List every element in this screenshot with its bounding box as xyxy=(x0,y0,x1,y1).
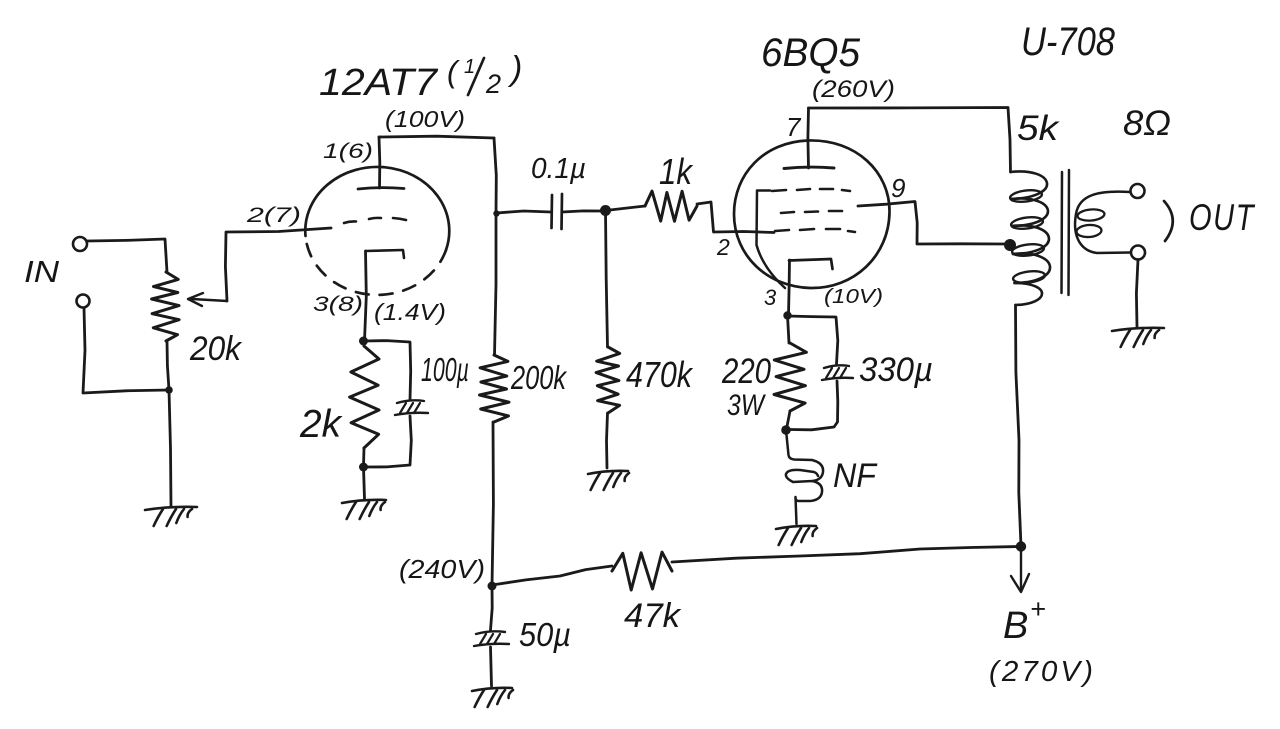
node screen tap xyxy=(1004,239,1016,251)
capacitor C2 100u symbol xyxy=(395,400,428,415)
svg-text:3: 3 xyxy=(764,285,777,310)
potentiometer VR1 wiper arrow xyxy=(188,293,227,306)
tube V1 envelope dashed arc xyxy=(306,236,447,295)
label pin 2 of V2 xyxy=(716,234,730,260)
label tube V1 12AT7(1/2) xyxy=(319,50,522,104)
label (270V) xyxy=(989,656,1096,688)
wire output bottom to ground xyxy=(1136,260,1138,328)
transformer T1 secondary winding xyxy=(1075,192,1130,253)
wire 470k to ground xyxy=(607,413,608,468)
label 47k xyxy=(624,597,682,635)
tube V2 grid g2 dashes xyxy=(781,211,842,213)
transformer T1 primary winding xyxy=(1009,171,1050,305)
label tube V2 6BQ5 xyxy=(761,31,861,75)
label 330u xyxy=(859,351,933,389)
svg-text:OUT: OUT xyxy=(1189,197,1255,238)
tube V2 cathode xyxy=(789,259,833,269)
wire 200k to 240V node xyxy=(492,422,493,586)
wire pot bottom to junction xyxy=(167,341,169,390)
label 20k xyxy=(189,330,243,368)
wire wiper to 12AT7 grid xyxy=(225,228,331,301)
tube V2 cathode lead xyxy=(789,260,790,315)
label 3W xyxy=(727,389,766,422)
label output paren xyxy=(1164,201,1173,241)
inductor NF coil xyxy=(786,430,823,524)
node grid junction xyxy=(600,205,611,216)
svg-text:2k: 2k xyxy=(299,403,343,446)
svg-text:2: 2 xyxy=(716,234,730,260)
svg-text:100µ: 100µ xyxy=(421,351,469,388)
svg-text:(10V): (10V) xyxy=(824,286,883,308)
svg-text:9: 9 xyxy=(891,173,905,203)
svg-text:47k: 47k xyxy=(624,597,682,635)
svg-text:2(7): 2(7) xyxy=(246,204,301,227)
label (260V) xyxy=(812,76,895,103)
label (1.4V) xyxy=(374,299,446,325)
wire 47k to B+ node xyxy=(672,547,1021,563)
svg-text:470k: 470k xyxy=(626,354,694,395)
ground under 470k xyxy=(588,471,629,490)
svg-text:+: + xyxy=(1030,594,1046,624)
svg-text:50µ: 50µ xyxy=(519,616,571,653)
tube V1 grid dashes xyxy=(344,218,406,223)
tube V2 grid g3 dashes xyxy=(775,229,855,232)
label OUT xyxy=(1189,197,1255,238)
label 5k xyxy=(1017,109,1060,148)
tube V1 plate xyxy=(358,188,404,189)
node B+ junction xyxy=(1016,541,1026,551)
wire cap to grid node xyxy=(562,211,605,212)
label 470k xyxy=(626,354,694,395)
label (10V) xyxy=(824,286,883,308)
label pin 3 xyxy=(764,285,777,310)
wire input bottom to ground bus xyxy=(83,308,169,393)
tube V2 screen lead to pin 9 xyxy=(858,202,1006,245)
svg-text:IN: IN xyxy=(24,254,60,289)
tube V1 cathode xyxy=(366,250,405,258)
node cathode bottom junction xyxy=(359,463,368,472)
capacitor C3 330u branch xyxy=(788,316,838,430)
label IN xyxy=(24,254,60,289)
label B+ xyxy=(1003,594,1046,647)
wire 240V to 47k xyxy=(492,566,612,585)
label pin 7 xyxy=(786,112,802,142)
wire to ground under 2k xyxy=(364,467,365,499)
resistor R2 2k xyxy=(350,341,379,466)
ground under 50u xyxy=(472,688,513,707)
svg-text:220: 220 xyxy=(721,352,771,391)
node input-ground junction xyxy=(165,386,173,394)
svg-text:(100V): (100V) xyxy=(385,106,465,132)
svg-text:20k: 20k xyxy=(189,330,243,368)
resistor R7 47k xyxy=(612,552,672,590)
label 8ohm xyxy=(1123,104,1171,143)
node 240V junction xyxy=(488,582,497,591)
label U-708 xyxy=(1021,20,1116,64)
label 2k xyxy=(299,403,343,446)
svg-text:1(6): 1(6) xyxy=(323,140,373,163)
tube V2 plate xyxy=(784,167,834,168)
wire V2 plate to OPT primary xyxy=(809,108,1011,173)
svg-text:6BQ5: 6BQ5 xyxy=(761,31,861,75)
capacitor C3 330u symbol xyxy=(822,365,853,380)
svg-text:200k: 200k xyxy=(510,359,567,396)
resistor R6 220 3W xyxy=(774,316,806,430)
capacitor C1 0.1u xyxy=(552,194,563,229)
node coupling tee xyxy=(493,210,499,216)
ground under NF xyxy=(776,526,817,545)
ground under 2k xyxy=(342,500,386,519)
node cathode bottom V2 xyxy=(781,425,791,435)
wire V1 plate to B+ rail xyxy=(379,136,494,138)
label pin 9 xyxy=(891,173,905,203)
svg-text:330µ: 330µ xyxy=(859,351,933,389)
label NF xyxy=(833,457,878,495)
label (240V) xyxy=(399,554,485,584)
svg-text:7: 7 xyxy=(786,112,802,142)
svg-text:5k: 5k xyxy=(1017,109,1060,148)
tube V2 envelope xyxy=(734,140,890,288)
input terminal J1 bottom xyxy=(77,295,90,308)
resistor R5 470k xyxy=(596,347,620,413)
wire node to 1k xyxy=(606,206,646,211)
node cathode junction xyxy=(359,337,368,346)
svg-text:8Ω: 8Ω xyxy=(1123,104,1171,143)
tube V1 envelope solid arc xyxy=(305,167,449,250)
svg-text:NF: NF xyxy=(833,457,878,495)
capacitor C4 50u symbol xyxy=(474,631,509,646)
svg-text:(260V): (260V) xyxy=(812,76,895,103)
tube V2 grid g1 dashes xyxy=(772,189,850,191)
svg-text:(1.4V): (1.4V) xyxy=(374,299,446,325)
svg-text:0.1µ: 0.1µ xyxy=(531,153,586,185)
ground under pot xyxy=(145,507,197,526)
label 100u xyxy=(421,351,469,388)
tube V1 plate lead xyxy=(378,137,382,188)
wire tee to coupling cap xyxy=(497,211,552,213)
label 0.1u xyxy=(531,153,586,185)
transformer T1 core xyxy=(1062,170,1070,295)
wire junction to ground xyxy=(169,390,171,507)
resistor R3 200k xyxy=(480,355,510,422)
label 220 xyxy=(721,352,771,391)
capacitor C2 100u branch xyxy=(364,341,412,467)
svg-text:3W: 3W xyxy=(727,389,766,422)
node cathode V2 junction xyxy=(783,311,791,319)
resistor R4 1k xyxy=(645,191,697,221)
wire primary bottom to B+ xyxy=(1016,305,1022,546)
svg-text:1k: 1k xyxy=(659,151,694,192)
wire 1k to 6BQ5 grid xyxy=(697,202,774,233)
capacitor C4 50u branch xyxy=(491,586,493,686)
svg-text:(270V): (270V) xyxy=(989,656,1096,688)
label 3(8) cathode pin xyxy=(313,293,363,316)
resistor R5 470k branch xyxy=(606,211,608,348)
label 1k xyxy=(659,151,694,192)
output terminal bottom xyxy=(1131,246,1145,260)
svg-text:2: 2 xyxy=(485,69,501,99)
svg-text:B: B xyxy=(1003,605,1028,647)
svg-text:U-708: U-708 xyxy=(1021,20,1116,64)
input terminal J1 top xyxy=(73,237,87,251)
label (100V) xyxy=(385,106,465,132)
tube V1 cathode lead xyxy=(365,251,367,341)
label 200k xyxy=(510,359,567,396)
label 50u xyxy=(519,616,571,653)
output terminal top xyxy=(1131,184,1145,198)
ground under output xyxy=(1112,328,1164,347)
svg-text:(240V): (240V) xyxy=(399,554,485,584)
svg-text:12AT7: 12AT7 xyxy=(319,62,439,104)
potentiometer VR1 20k element xyxy=(152,272,180,341)
B+ arrow xyxy=(1011,546,1029,592)
svg-text:3(8): 3(8) xyxy=(313,293,363,316)
svg-text:1: 1 xyxy=(464,56,475,78)
label 2(7) grid pin xyxy=(246,204,301,227)
wire input top to volume pot xyxy=(87,239,167,272)
tube V2 plate lead xyxy=(807,108,810,168)
wire B+ rail vertical V1 xyxy=(494,138,496,355)
tube V2 grid support bracket xyxy=(757,191,786,289)
label 1(6) plate pin xyxy=(323,140,373,163)
